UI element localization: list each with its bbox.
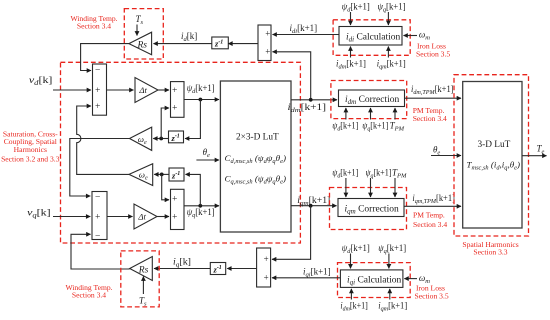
svg-text:+: + — [172, 213, 177, 223]
svg-text:iqm,TPM[k+1]: iqm,TPM[k+1] — [412, 193, 455, 205]
svg-text:vd[k]: vd[k] — [29, 76, 52, 87]
label idm[k+1] bottom feed 1 — [336, 59, 366, 71]
svg-text:+: + — [265, 47, 270, 57]
label psi_d[k+1] top feed 1 — [342, 2, 370, 14]
wire junction up to delay z3 — [186, 174, 201, 205]
label psi_d[k+1] — [187, 83, 215, 95]
idi calculation dashed box — [333, 20, 410, 56]
junction z2 out — [159, 137, 163, 141]
label idi[k+1] — [290, 23, 318, 35]
svg-text:TPM: TPM — [392, 167, 407, 179]
gain we2 — [129, 164, 153, 186]
svg-text:PM Temp.Section 3.4: PM Temp.Section 3.4 — [413, 211, 447, 230]
theta_e input 2 — [433, 144, 440, 156]
delay z3 q-feedback — [169, 168, 184, 181]
svg-text:+: + — [95, 213, 100, 223]
svg-text:id[k]: id[k] — [181, 31, 197, 43]
svg-text:Winding Temp.Section 3.4: Winding Temp.Section 3.4 — [65, 283, 112, 299]
amplifier Rs1 — [129, 32, 152, 55]
svg-text:ψd[k+1]: ψd[k+1] — [342, 2, 370, 14]
summer d2 — [171, 82, 185, 118]
junction psi_q — [198, 204, 202, 208]
svg-text:idi Calculation: idi Calculation — [346, 33, 401, 44]
svg-text:3-D LuT: 3-D LuT — [478, 140, 511, 150]
svg-text:ψq[k+1]: ψq[k+1] — [362, 121, 388, 133]
svg-text:ψd[k+1]: ψd[k+1] — [332, 121, 358, 133]
label idm[k+1] — [288, 102, 327, 114]
vq input — [27, 209, 50, 220]
arrows into iqm correction top — [345, 178, 347, 197]
summer d1 — [93, 64, 107, 115]
arrows psi into iqi calc — [350, 254, 352, 269]
svg-text:Winding Temp.Section 3.4: Winding Temp.Section 3.4 — [70, 14, 117, 31]
svg-text:iqm[k+1]: iqm[k+1] — [377, 59, 406, 71]
svg-text:idi[k+1]: idi[k+1] — [290, 23, 318, 35]
wire dt1 to summer d2 — [158, 89, 169, 91]
iqm correction box — [338, 199, 404, 217]
svg-text:iq[k]: iq[k] — [173, 257, 191, 269]
labels above iqm correction — [332, 167, 407, 179]
svg-text:iqm Correction: iqm Correction — [345, 204, 399, 215]
label: winding temp top — [70, 14, 117, 31]
svg-text:+: + — [172, 195, 177, 205]
wire psi_d to LuT with junction — [184, 99, 219, 101]
wire idm LuT to correction — [291, 99, 337, 101]
svg-text:z-1: z-1 — [171, 133, 180, 143]
wire z2 branch up to summer d2 — [161, 108, 169, 139]
big dashed box: saturation cross-coupling spatial harmonics — [61, 62, 301, 243]
summer q2 — [171, 189, 185, 229]
label iqm[k+1] — [297, 195, 330, 207]
svg-text:idm,TPM[k+1]: idm,TPM[k+1] — [411, 84, 454, 96]
svg-text:Rs: Rs — [137, 40, 148, 50]
svg-text:−: − — [95, 232, 100, 242]
svg-text:iqm[k+1]: iqm[k+1] — [378, 300, 407, 312]
Ts input bottom — [139, 296, 147, 308]
Ts input top — [136, 14, 144, 26]
gain we1 — [130, 127, 152, 150]
svg-text:ψq[k+1]: ψq[k+1] — [187, 207, 215, 219]
gain dt1 — [135, 78, 158, 103]
vd input — [29, 76, 52, 87]
summer S1 top right — [258, 25, 271, 61]
label iqm,TPM[k+1] — [412, 193, 455, 205]
svg-text:idm Correction: idm Correction — [345, 95, 399, 106]
wire summer d1 to dt1 — [107, 89, 134, 91]
wire S2 to z4 — [227, 268, 256, 270]
svg-text:ψq[k+1]: ψq[k+1] — [378, 2, 406, 14]
winding temp dashed box (bottom) — [121, 251, 159, 307]
wire sum to z1 — [228, 43, 258, 45]
wire z1 to Rs1 — [154, 43, 212, 45]
svg-text:z-1: z-1 — [214, 39, 223, 49]
wire z2 out to we1 — [153, 138, 168, 140]
amplifier Rs2 — [130, 257, 153, 281]
gain dt2 — [134, 204, 157, 229]
svg-text:+: + — [265, 29, 270, 39]
svg-text:2×3-D LuT: 2×3-D LuT — [236, 133, 279, 143]
svg-text:Δt: Δt — [137, 212, 146, 222]
svg-text:ψq[k+1]: ψq[k+1] — [378, 243, 406, 255]
iqm correction dashed box — [330, 188, 407, 230]
label iron loss bottom — [415, 284, 449, 301]
wire iqm LuT to correction — [291, 205, 337, 207]
svg-text:+: + — [172, 104, 177, 114]
wire iqm,TPM to 3D LuT — [404, 205, 461, 207]
arrows i into iqi calc bottom — [350, 289, 352, 300]
label idm,TPM[k+1] — [411, 84, 454, 96]
svg-text:Cq,msc,sh (ψdψqθe): Cq,msc,sh (ψdψqθe) — [225, 174, 287, 186]
wire iqm junction down to bottom summer — [272, 206, 311, 260]
spatial harmonics dashed box — [454, 75, 529, 236]
summer S2 bottom right — [257, 248, 271, 287]
label: saturation section — [1, 129, 60, 163]
winding temp dashed box (top) — [124, 9, 163, 59]
svg-text:+: + — [264, 273, 269, 283]
delay z1 top — [212, 37, 229, 49]
svg-text:ψd[k+1]: ψd[k+1] — [332, 167, 358, 179]
label winding temp bottom — [65, 283, 112, 299]
wire Rs2 output to summer q1 minus — [71, 234, 130, 269]
label iq[k] — [173, 257, 191, 269]
svg-text:TPM: TPM — [390, 121, 405, 133]
wire Rs1 output to summer d1 minus — [81, 44, 129, 71]
svg-text:iqi[k+1]: iqi[k+1] — [303, 267, 331, 279]
output torque Te — [522, 155, 547, 157]
label spatial harmonics — [462, 240, 518, 257]
svg-text:θe: θe — [433, 144, 440, 156]
wire summer q1 to dt2 — [107, 216, 133, 218]
svg-text:z-1: z-1 — [213, 264, 222, 274]
svg-text:Cd,msc,sh (ψdψqθe): Cd,msc,sh (ψdψqθe) — [225, 153, 287, 165]
svg-text:Tmsc,sh (id,iq,θe): Tmsc,sh (id,iq,θe) — [467, 160, 521, 172]
label psi_q[k+1] top feed 2 — [378, 2, 406, 14]
svg-text:Ts: Ts — [136, 14, 144, 26]
arrows i into idi calc bottom — [350, 47, 352, 58]
svg-text:Spatial HarmonicsSection 3.3: Spatial HarmonicsSection 3.3 — [462, 240, 518, 257]
iqi calculation dashed box — [338, 263, 411, 298]
svg-text:ωm: ωm — [419, 30, 430, 42]
LuT 2x3D box — [220, 81, 291, 232]
labels under idm correction — [332, 121, 404, 133]
svg-text:idm[k+1]: idm[k+1] — [340, 300, 368, 312]
label iron loss top — [416, 42, 450, 59]
idm correction box — [339, 90, 405, 107]
omega_m input top — [419, 30, 430, 42]
svg-text:+: + — [172, 86, 177, 96]
svg-text:θe: θe — [203, 147, 210, 159]
label psi_d[k+1] above iqi calc — [342, 243, 370, 255]
idi calculation box — [339, 27, 402, 46]
delay z4 bottom — [210, 263, 225, 275]
svg-text:Saturation, Cross-Coupling, Sp: Saturation, Cross-Coupling, SpatialHarmo… — [1, 129, 60, 163]
label pm temp bottom — [413, 211, 447, 230]
svg-text:−: − — [95, 66, 100, 76]
3-D LuT box — [463, 82, 522, 229]
wire z4 to Rs2 — [154, 268, 210, 270]
arrows into idm correction bottom — [345, 108, 347, 120]
svg-text:iqi Calculation: iqi Calculation — [347, 276, 402, 287]
label iqm[k+1] below iqi calc — [378, 300, 407, 312]
svg-text:ψd[k+1]: ψd[k+1] — [342, 243, 370, 255]
label pm temp top — [413, 106, 447, 123]
wire dt2 to summer q2 — [157, 216, 169, 218]
wire iqi[k+1] to bottom summer — [272, 277, 340, 279]
junction psi_d — [199, 98, 203, 102]
idm correction dashed box — [331, 81, 407, 119]
summer q1 — [92, 192, 107, 240]
svg-text:vq[k]: vq[k] — [27, 209, 50, 220]
svg-text:Iron LossSection 3.5: Iron LossSection 3.5 — [416, 42, 450, 59]
svg-text:Δt: Δt — [138, 85, 147, 95]
label iqm[k+1] bottom feed 2 — [377, 59, 406, 71]
svg-text:+: + — [95, 86, 100, 96]
junction idm — [309, 98, 313, 102]
wire idi[k+1] into S1 — [273, 34, 340, 36]
label psi_q[k+1] above iqi calc — [378, 243, 406, 255]
svg-text:Ts: Ts — [139, 296, 147, 308]
delay z2 d-feedback — [169, 131, 184, 143]
wire idm,TPM to 3D LuT — [405, 97, 462, 99]
wire z3 branch down to summer q2 — [162, 174, 169, 199]
wire idm junction to S1 lower plus — [273, 52, 311, 100]
wire junction down to delay z2 — [185, 100, 200, 139]
theta_e input 1 — [203, 147, 210, 159]
label idm[k+1] below iqi calc — [340, 300, 368, 312]
svg-text:z-1: z-1 — [171, 170, 180, 180]
svg-text:idm[k+1]: idm[k+1] — [288, 102, 327, 114]
svg-text:Te: Te — [537, 144, 545, 156]
svg-text:ψd[k+1]: ψd[k+1] — [187, 83, 215, 95]
wire psi_q to LuT — [184, 205, 219, 207]
svg-text:−: − — [95, 193, 100, 203]
wire we1 to q summer minus (cross A) — [70, 139, 130, 197]
svg-text:Iron LossSection 3.5: Iron LossSection 3.5 — [415, 284, 449, 301]
svg-text:iqm[k+1]: iqm[k+1] — [297, 195, 330, 207]
wire we2 to d summer plus (cross B with hop) — [77, 106, 129, 174]
junction iqm — [309, 204, 313, 208]
svg-text:ψq[k+1]: ψq[k+1] — [366, 167, 392, 179]
wire z3 out to we2 — [154, 173, 169, 175]
arrows psi into idi calc — [350, 12, 352, 25]
svg-text:+: + — [95, 102, 100, 112]
junction z3 out — [160, 173, 164, 177]
svg-text:Rs: Rs — [138, 265, 149, 275]
svg-text:PM Temp.Section 3.4: PM Temp.Section 3.4 — [413, 106, 447, 123]
svg-text:+: + — [264, 254, 269, 264]
svg-text:idm[k+1]: idm[k+1] — [336, 59, 366, 71]
omega_m input bottom — [419, 273, 430, 285]
label psi_q[k+1] — [187, 207, 215, 219]
label id[k] — [181, 31, 197, 43]
iqi calculation box — [340, 270, 403, 288]
label iqi[k+1] — [303, 267, 331, 279]
